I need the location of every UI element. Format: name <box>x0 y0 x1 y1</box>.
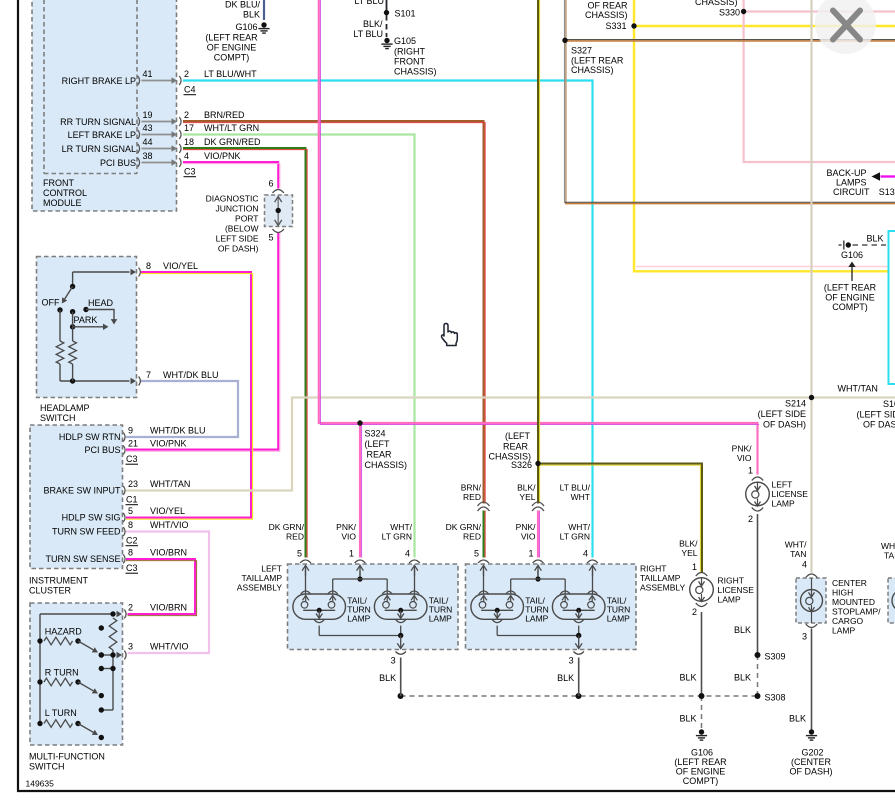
svg-text:4: 4 <box>802 560 807 570</box>
svg-text:LT GRN: LT GRN <box>560 532 590 542</box>
svg-text:SWITCH: SWITCH <box>29 762 65 772</box>
svg-text:3: 3 <box>391 656 396 666</box>
svg-text:CLUSTER: CLUSTER <box>29 586 72 596</box>
svg-text:TAILLAMP: TAILLAMP <box>640 573 681 583</box>
svg-text:RIGHT: RIGHT <box>640 564 666 574</box>
svg-text:C4: C4 <box>184 85 196 95</box>
svg-text:OF REAR: OF REAR <box>587 1 628 11</box>
svg-text:(BELOW: (BELOW <box>225 224 259 234</box>
svg-text:LAMP: LAMP <box>607 614 630 624</box>
svg-text:HAZARD: HAZARD <box>45 627 83 637</box>
svg-text:CIRCUIT: CIRCUIT <box>833 187 870 197</box>
svg-text:LT BLU: LT BLU <box>354 0 384 6</box>
svg-text:8: 8 <box>146 261 151 271</box>
svg-text:(LEFT SIDE: (LEFT SIDE <box>758 409 806 419</box>
svg-text:OF DASH): OF DASH) <box>763 420 806 430</box>
svg-text:OF DASH): OF DASH) <box>218 244 259 254</box>
svg-text:LR TURN SIGNAL: LR TURN SIGNAL <box>62 144 136 154</box>
svg-text:S135: S135 <box>879 187 895 197</box>
svg-text:OF ENGINE: OF ENGINE <box>676 767 726 777</box>
svg-text:OF DASH): OF DASH) <box>863 420 895 430</box>
svg-text:(LEFT: (LEFT <box>505 431 531 441</box>
svg-text:CHASSIS): CHASSIS) <box>394 67 437 77</box>
svg-text:TAN: TAN <box>790 549 806 559</box>
svg-text:RIGHT BRAKE LP: RIGHT BRAKE LP <box>62 76 136 86</box>
svg-text:SWITCH: SWITCH <box>40 413 76 423</box>
svg-text:G202: G202 <box>801 748 823 758</box>
svg-text:TURN SW FEED: TURN SW FEED <box>52 527 121 537</box>
svg-text:WHT/VIO: WHT/VIO <box>150 520 189 530</box>
svg-text:44: 44 <box>143 137 153 147</box>
svg-text:(LEFT REAR: (LEFT REAR <box>674 757 727 767</box>
svg-text:TURN SW SENSE: TURN SW SENSE <box>45 554 120 564</box>
svg-text:2: 2 <box>692 607 697 617</box>
svg-text:LEFT SIDE: LEFT SIDE <box>216 234 259 244</box>
svg-text:2: 2 <box>184 110 189 120</box>
svg-text:HDLP SW SIG: HDLP SW SIG <box>62 513 121 523</box>
svg-text:COMPT): COMPT) <box>214 53 250 63</box>
svg-text:WHT/: WHT/ <box>390 522 412 532</box>
svg-text:(CENTER: (CENTER <box>791 757 831 767</box>
svg-text:2: 2 <box>748 514 753 524</box>
svg-text:WHT/: WHT/ <box>568 522 590 532</box>
svg-text:41: 41 <box>143 69 153 79</box>
svg-text:3: 3 <box>128 642 133 652</box>
svg-text:1: 1 <box>349 549 354 559</box>
svg-text:(RIGHT: (RIGHT <box>394 47 425 57</box>
svg-text:3: 3 <box>569 656 574 666</box>
svg-text:S326: S326 <box>511 460 532 470</box>
svg-text:8: 8 <box>128 548 133 558</box>
svg-text:LICENSE: LICENSE <box>772 489 809 499</box>
svg-text:DK GRN/RED: DK GRN/RED <box>204 137 261 147</box>
svg-text:S331: S331 <box>605 21 626 31</box>
svg-text:VIO: VIO <box>521 532 536 542</box>
svg-text:STOPLAMP/: STOPLAMP/ <box>832 607 881 617</box>
svg-text:INSTRUMENT: INSTRUMENT <box>29 576 88 586</box>
svg-text:CHASSIS): CHASSIS) <box>365 460 408 470</box>
svg-text:WHT/TAN: WHT/TAN <box>150 479 190 489</box>
svg-text:OF DASH): OF DASH) <box>789 767 832 777</box>
svg-text:FRONT: FRONT <box>43 178 74 188</box>
svg-text:OF ENGINE: OF ENGINE <box>825 293 875 303</box>
svg-text:2: 2 <box>184 69 189 79</box>
svg-text:1: 1 <box>528 549 533 559</box>
svg-text:DK GRN/: DK GRN/ <box>446 522 482 532</box>
svg-text:3: 3 <box>802 632 807 642</box>
svg-text:BLK/: BLK/ <box>679 539 698 549</box>
svg-text:(LEFT: (LEFT <box>365 439 391 449</box>
svg-text:CARGO: CARGO <box>832 616 864 626</box>
svg-text:TAILLAMP: TAILLAMP <box>242 573 283 583</box>
svg-text:R TURN: R TURN <box>45 668 79 678</box>
svg-text:VIO: VIO <box>737 453 752 463</box>
svg-text:S330: S330 <box>719 8 740 18</box>
svg-text:BACK-UP: BACK-UP <box>826 168 866 178</box>
svg-text:VIO/BRN: VIO/BRN <box>150 603 187 613</box>
svg-text:PNK/: PNK/ <box>732 444 752 454</box>
svg-text:DIAGNOSTIC: DIAGNOSTIC <box>206 194 259 204</box>
svg-text:COMPT): COMPT) <box>683 776 719 786</box>
svg-text:(LEFT REAR: (LEFT REAR <box>571 56 624 66</box>
svg-text:LAMP: LAMP <box>347 614 370 624</box>
svg-text:LAMP: LAMP <box>429 614 452 624</box>
svg-text:REAR: REAR <box>367 450 393 460</box>
svg-text:LAMP: LAMP <box>832 626 855 636</box>
svg-text:S324: S324 <box>365 429 386 439</box>
svg-text:9: 9 <box>128 426 133 436</box>
svg-text:G106: G106 <box>691 748 713 758</box>
svg-text:(LEFT REAR: (LEFT REAR <box>205 33 258 43</box>
svg-text:WHT/DK BLU: WHT/DK BLU <box>150 426 206 436</box>
svg-text:L TURN: L TURN <box>45 708 77 718</box>
svg-text:TAN: TAN <box>884 551 895 561</box>
svg-text:S214: S214 <box>785 399 806 409</box>
svg-text:23: 23 <box>128 479 138 489</box>
svg-text:LAMP: LAMP <box>772 499 795 509</box>
svg-text:OF ENGINE: OF ENGINE <box>207 43 257 53</box>
svg-text:DK GRN/: DK GRN/ <box>269 522 305 532</box>
svg-text:BRN/: BRN/ <box>461 483 482 493</box>
svg-text:VIO/BRN: VIO/BRN <box>150 548 187 558</box>
svg-text:LICENSE: LICENSE <box>718 585 755 595</box>
svg-text:LAMPS: LAMPS <box>836 178 867 188</box>
svg-text:2: 2 <box>128 603 133 613</box>
svg-text:VIO/PNK: VIO/PNK <box>204 151 241 161</box>
svg-text:BLK: BLK <box>734 625 751 635</box>
svg-text:LT BLU: LT BLU <box>353 29 383 39</box>
svg-text:S308: S308 <box>765 693 786 703</box>
svg-text:PCI BUS: PCI BUS <box>84 445 120 455</box>
svg-text:FRONT: FRONT <box>394 57 425 67</box>
svg-text:BLK/: BLK/ <box>517 483 536 493</box>
svg-text:CENTER: CENTER <box>832 578 867 588</box>
svg-text:5: 5 <box>128 506 133 516</box>
svg-text:BRN/RED: BRN/RED <box>204 110 245 120</box>
svg-text:PORT: PORT <box>235 214 258 224</box>
svg-text:CHASSIS): CHASSIS) <box>585 10 628 20</box>
svg-text:C3: C3 <box>126 454 138 464</box>
svg-text:18: 18 <box>184 137 194 147</box>
svg-text:RIGHT: RIGHT <box>718 576 744 586</box>
svg-text:RR TURN SIGNAL: RR TURN SIGNAL <box>60 117 136 127</box>
svg-text:RED: RED <box>286 532 304 542</box>
svg-text:LEFT: LEFT <box>772 480 793 490</box>
svg-text:WHT/TAN: WHT/TAN <box>838 384 878 394</box>
svg-text:C1: C1 <box>126 495 138 505</box>
svg-text:38: 38 <box>143 151 153 161</box>
svg-text:MOUNTED: MOUNTED <box>832 597 875 607</box>
svg-text:7: 7 <box>146 370 151 380</box>
svg-text:VIO/PNK: VIO/PNK <box>150 439 187 449</box>
svg-text:BLK: BLK <box>243 10 260 20</box>
svg-text:(LEFT SIDE: (LEFT SIDE <box>857 410 895 420</box>
svg-text:BLK: BLK <box>679 714 696 724</box>
svg-text:LAMP: LAMP <box>525 614 548 624</box>
svg-text:DK BLU/: DK BLU/ <box>225 0 261 10</box>
svg-text:4: 4 <box>583 549 588 559</box>
svg-text:MULTI-FUNCTION: MULTI-FUNCTION <box>29 752 105 762</box>
svg-text:149635: 149635 <box>26 779 55 789</box>
svg-text:PCI BUS: PCI BUS <box>100 158 136 168</box>
svg-text:C3: C3 <box>184 167 196 177</box>
svg-text:G106: G106 <box>841 250 863 260</box>
svg-text:PARK: PARK <box>74 315 98 325</box>
svg-text:CHASSIS): CHASSIS) <box>695 0 738 7</box>
svg-text:HEAD: HEAD <box>88 298 114 308</box>
svg-text:PNK/: PNK/ <box>336 522 356 532</box>
svg-text:WHT/: WHT/ <box>785 540 807 550</box>
svg-text:PNK/: PNK/ <box>516 522 536 532</box>
svg-text:WHT/VIO: WHT/VIO <box>150 642 189 652</box>
svg-text:G105: G105 <box>394 36 416 46</box>
svg-text:5: 5 <box>297 549 302 559</box>
svg-text:43: 43 <box>143 123 153 133</box>
svg-text:HIGH: HIGH <box>832 588 853 598</box>
svg-text:C2: C2 <box>126 536 138 546</box>
svg-text:5: 5 <box>268 233 273 243</box>
svg-text:CONTROL: CONTROL <box>43 188 87 198</box>
svg-text:MODULE: MODULE <box>43 198 82 208</box>
svg-text:LT GRN: LT GRN <box>382 532 412 542</box>
svg-text:1: 1 <box>748 466 753 476</box>
svg-text:LAMP: LAMP <box>718 595 741 605</box>
svg-text:OFF: OFF <box>42 298 60 308</box>
svg-text:JUNCTION: JUNCTION <box>216 204 259 214</box>
svg-text:HEADLAMP: HEADLAMP <box>40 403 90 413</box>
svg-text:YEL: YEL <box>681 548 697 558</box>
svg-text:BLK/: BLK/ <box>363 19 383 29</box>
svg-text:BLK: BLK <box>379 673 396 683</box>
svg-text:ASSEMBLY: ASSEMBLY <box>237 583 283 593</box>
svg-text:RED: RED <box>463 532 481 542</box>
svg-text:BLK: BLK <box>867 234 884 244</box>
svg-text:6: 6 <box>268 179 273 189</box>
svg-text:S327: S327 <box>571 46 592 56</box>
svg-text:LT BLU/: LT BLU/ <box>560 483 591 493</box>
svg-text:4: 4 <box>405 549 410 559</box>
svg-text:5: 5 <box>474 549 479 559</box>
svg-text:1: 1 <box>692 562 697 572</box>
svg-text:LEFT BRAKE LP: LEFT BRAKE LP <box>68 130 136 140</box>
svg-text:CHASSIS): CHASSIS) <box>571 65 614 75</box>
svg-text:S309: S309 <box>765 652 786 662</box>
svg-text:VIO/YEL: VIO/YEL <box>163 261 198 271</box>
svg-text:G106: G106 <box>235 22 257 32</box>
svg-text:(LEFT REAR: (LEFT REAR <box>824 283 877 293</box>
svg-text:S10: S10 <box>883 399 895 409</box>
svg-text:YEL: YEL <box>519 492 535 502</box>
svg-text:VIO: VIO <box>341 532 356 542</box>
svg-text:WHT/LT GRN: WHT/LT GRN <box>204 123 259 133</box>
svg-text:RED: RED <box>463 492 481 502</box>
svg-text:HDLP SW RTN: HDLP SW RTN <box>59 432 121 442</box>
svg-text:VIO/YEL: VIO/YEL <box>150 506 185 516</box>
svg-text:S101: S101 <box>395 9 416 19</box>
svg-text:4: 4 <box>184 151 189 161</box>
svg-text:17: 17 <box>184 123 194 133</box>
svg-text:WHT: WHT <box>571 492 590 502</box>
svg-text:WHT/: WHT/ <box>881 541 895 551</box>
svg-text:ASSEMBLY: ASSEMBLY <box>640 583 686 593</box>
svg-text:BRAKE SW INPUT: BRAKE SW INPUT <box>43 486 121 496</box>
svg-text:BLK: BLK <box>679 673 696 683</box>
svg-text:LEFT: LEFT <box>261 564 282 574</box>
svg-text:REAR: REAR <box>503 442 529 452</box>
svg-text:21: 21 <box>128 439 138 449</box>
svg-text:COMPT): COMPT) <box>832 302 868 312</box>
svg-text:WHT/DK BLU: WHT/DK BLU <box>163 370 219 380</box>
svg-text:BLK: BLK <box>557 673 574 683</box>
svg-text:BLK: BLK <box>734 673 751 683</box>
svg-text:LT BLU/WHT: LT BLU/WHT <box>204 69 257 79</box>
svg-text:C3: C3 <box>126 563 138 573</box>
svg-text:8: 8 <box>128 520 133 530</box>
svg-text:19: 19 <box>143 110 153 120</box>
svg-text:BLK: BLK <box>789 714 806 724</box>
